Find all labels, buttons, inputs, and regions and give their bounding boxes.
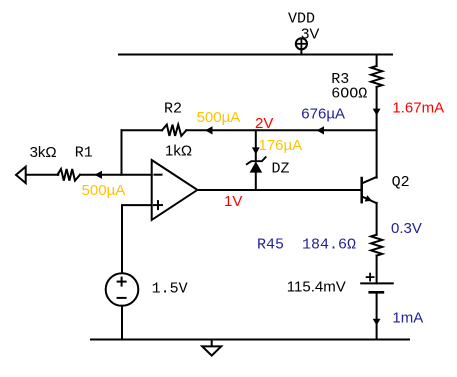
wire feedback to inverting input (121, 130, 123, 174)
current arrow 500uA on R2 wire (205, 126, 213, 134)
svg-text:500µA: 500µA (197, 109, 241, 126)
resistor R45 (371, 235, 382, 284)
svg-text:3V: 3V (301, 25, 319, 42)
op-amp U1 (152, 160, 198, 220)
wire op-amp output to base (197, 189, 360, 191)
svg-text:1kΩ: 1kΩ (165, 142, 192, 159)
input terminal (16, 167, 26, 183)
ground symbol (202, 340, 221, 356)
svg-text:0.3V: 0.3V (391, 220, 422, 237)
voltage source V1 1.5V (106, 273, 139, 339)
svg-text:R2: R2 (164, 101, 182, 118)
svg-text:1.67mA: 1.67mA (392, 99, 444, 116)
svg-text:Q2: Q2 (392, 174, 410, 191)
current arrow 176uA on zener (252, 147, 260, 154)
svg-text:R1: R1 (75, 145, 93, 162)
battery 115.4mV (361, 274, 393, 340)
svg-text:115.4mV: 115.4mV (287, 278, 346, 295)
resistor R1 (58, 169, 81, 181)
wire 676uA horizontal node 2V (186, 129, 376, 131)
transistor Q2 (362, 130, 377, 234)
resistor R2 (122, 125, 187, 136)
emitter arrow Q2 (365, 195, 373, 201)
current arrow 676uA (317, 126, 325, 134)
current arrow 1.67mA below R3 (373, 109, 381, 116)
zener triangle (250, 161, 263, 172)
svg-text:176µA: 176µA (259, 137, 303, 154)
current arrow 1mA (373, 319, 381, 326)
svg-text:DZ: DZ (272, 161, 290, 178)
svg-text:500µA: 500µA (82, 182, 126, 199)
current arrow 500uA on R1 wire (95, 171, 103, 179)
zener diode DZ (247, 130, 266, 190)
svg-text:1V: 1V (224, 193, 242, 210)
svg-text:1.5V: 1.5V (152, 281, 188, 298)
wire non-inverting input (122, 205, 152, 273)
svg-text:6OOΩ: 6OOΩ (331, 85, 367, 102)
svg-text:676µA: 676µA (301, 106, 345, 123)
svg-text:2V: 2V (255, 115, 273, 132)
svg-text:R45 184.6Ω: R45 184.6Ω (257, 237, 356, 254)
power symbol VDD (296, 38, 307, 54)
wire VDD top rail (119, 54, 392, 56)
svg-text:1mA: 1mA (392, 310, 423, 327)
wire ground rail (91, 339, 409, 341)
resistor R3 (371, 55, 382, 131)
wire inverting input (26, 174, 58, 176)
svg-text:3kΩ: 3kΩ (30, 144, 57, 161)
